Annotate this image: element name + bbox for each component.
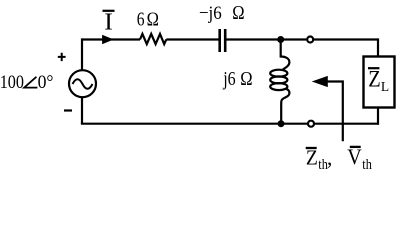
terminal a (open circle top) bbox=[307, 37, 313, 43]
plus sign bbox=[58, 53, 66, 61]
svg-text:Z: Z bbox=[306, 147, 318, 170]
node junction dot top bbox=[277, 36, 284, 43]
svg-text:Ω: Ω bbox=[147, 8, 159, 30]
wire top-left segment bbox=[82, 38, 140, 40]
wire left rail lower bbox=[81, 97, 83, 124]
AC source sine wave bbox=[73, 79, 93, 89]
overbar of Z th bbox=[306, 147, 317, 149]
resistor R 6ohm zigzag bbox=[140, 34, 166, 44]
capacitor C -j6ohm right plate bbox=[224, 29, 227, 52]
angle symbol bbox=[24, 77, 37, 88]
svg-text:0°: 0° bbox=[38, 71, 54, 92]
svg-text:th: th bbox=[362, 156, 372, 172]
current arrow bbox=[103, 36, 113, 44]
wire resistor-to-capacitor bbox=[166, 38, 218, 40]
minus sign bbox=[64, 109, 72, 111]
svg-text:L: L bbox=[381, 79, 389, 94]
wire node-to-right-corner bbox=[314, 38, 378, 40]
inductor L j6ohm coil top lead and hook bbox=[281, 39, 290, 70]
thevenin arrow line bbox=[326, 82, 343, 142]
wire bottom bbox=[81, 123, 378, 125]
AC source circle bbox=[69, 70, 96, 97]
svg-text:Ω: Ω bbox=[232, 2, 244, 24]
svg-text:j6: j6 bbox=[222, 68, 235, 90]
overbar of ZL bbox=[368, 67, 379, 69]
inductor ring 1 bbox=[270, 70, 287, 77]
capacitor C -j6ohm left plate bbox=[218, 29, 221, 52]
terminal b (open circle bottom) bbox=[308, 121, 314, 127]
overbar of V th bbox=[350, 146, 361, 148]
svg-text:,: , bbox=[327, 146, 332, 170]
svg-text:I: I bbox=[104, 9, 113, 35]
svg-text:100: 100 bbox=[0, 71, 24, 93]
node junction dot bottom bbox=[278, 120, 285, 127]
load box ZL bbox=[364, 57, 395, 108]
inductor bottom hook and lead bbox=[281, 89, 289, 124]
svg-text:Z: Z bbox=[368, 67, 380, 92]
svg-text:6: 6 bbox=[137, 8, 145, 30]
wire capacitor-to-node bbox=[226, 38, 306, 40]
svg-text:Ω: Ω bbox=[240, 68, 252, 90]
thevenin arrow head bbox=[313, 77, 327, 87]
inductor ring 3 bbox=[270, 83, 287, 90]
inductor ring 2 bbox=[270, 76, 287, 83]
wire right rail lower bbox=[377, 107, 379, 125]
svg-text:−j6: −j6 bbox=[199, 2, 222, 23]
wire left rail upper bbox=[81, 38, 83, 70]
overbar of I bbox=[103, 10, 115, 12]
wire right rail upper bbox=[377, 38, 379, 57]
